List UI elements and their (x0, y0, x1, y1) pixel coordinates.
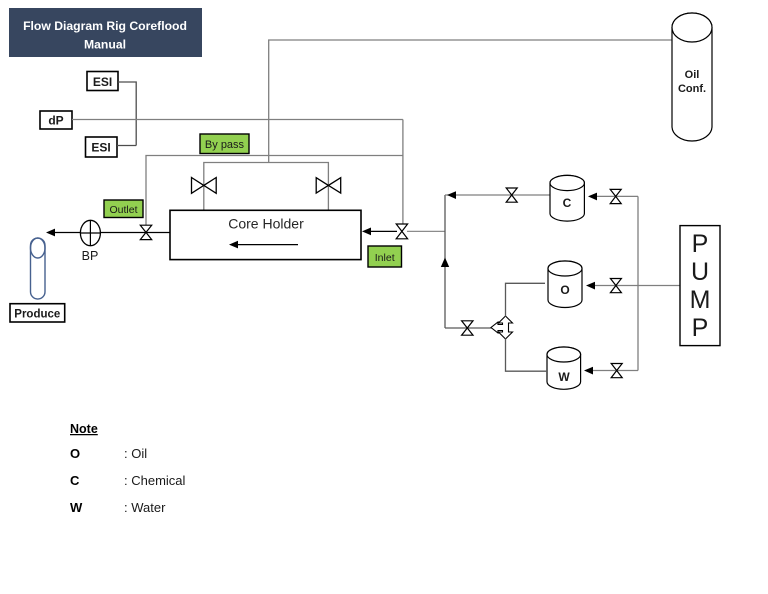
tank W (547, 347, 581, 389)
svg-text:Core Holder: Core Holder (228, 216, 304, 232)
svg-text:U: U (691, 258, 709, 286)
wire W feed from pump (592, 370, 638, 372)
arrow W feed (584, 367, 593, 375)
wire outlet line (53, 232, 170, 234)
svg-text:: Water: : Water (124, 500, 166, 515)
svg-text:Note: Note (70, 422, 98, 436)
svg-text:Outlet: Outlet (109, 204, 137, 216)
note row O (70, 446, 147, 461)
wire dP drop to inlet valve (402, 120, 404, 225)
svg-text:M: M (690, 286, 711, 314)
wire manifold up branch to O (506, 283, 546, 316)
wire ESI2 to junction (117, 145, 136, 147)
svg-text:ESI: ESI (93, 75, 112, 89)
svg-text:Produce: Produce (14, 308, 60, 320)
svg-text:P: P (692, 230, 709, 258)
wire riser junction vertical (444, 195, 446, 328)
box Produce (10, 304, 65, 322)
valve V4 (462, 321, 473, 335)
wire inlet line (370, 230, 397, 232)
label Outlet (104, 200, 143, 218)
svg-text:P: P (692, 314, 709, 342)
arrow outlet (46, 229, 55, 237)
manifold 3-way arrow (491, 316, 513, 339)
svg-text:W: W (558, 370, 570, 384)
arrow inside core holder (229, 241, 298, 249)
svg-text:Manual: Manual (84, 38, 126, 52)
svg-text:Inlet: Inlet (375, 252, 395, 264)
box ESI2 (86, 137, 118, 157)
box dP (40, 111, 72, 129)
svg-text:Oil: Oil (685, 69, 700, 81)
arrow O feed (586, 282, 595, 290)
valve V1 outlet (140, 225, 151, 239)
svg-text:O: O (70, 446, 80, 461)
valve B2 bypass right (316, 178, 341, 193)
valve V8 (611, 364, 622, 378)
wire pump supply vertical (637, 196, 639, 370)
svg-text:dP: dP (48, 114, 63, 128)
svg-text:Flow Diagram Rig Coreflood: Flow Diagram Rig Coreflood (23, 19, 187, 33)
arrow C feed (588, 193, 597, 201)
svg-text:ESI: ESI (91, 141, 110, 155)
valve V6 (610, 189, 621, 203)
wire bypass outer (146, 156, 403, 226)
wire O feed from pump (594, 285, 680, 287)
valve B1 bypass left (192, 178, 217, 194)
note row C (70, 473, 186, 488)
note row W (70, 500, 166, 515)
wire oil-conf feed (269, 40, 673, 163)
title box (9, 8, 202, 57)
svg-text:: Oil: : Oil (124, 446, 147, 461)
wire manifold line (445, 327, 492, 329)
svg-text:By pass: By pass (205, 139, 245, 151)
label By pass (200, 134, 249, 154)
core holder U2 (170, 210, 361, 259)
arrow C drain (447, 191, 456, 199)
svg-text:O: O (560, 283, 569, 297)
arrow inlet (362, 228, 371, 236)
svg-text:BP: BP (82, 249, 99, 263)
label Inlet (368, 246, 402, 267)
meter BP (80, 220, 100, 263)
wire dP line (72, 119, 403, 121)
svg-text:W: W (70, 500, 83, 515)
valve V2 inlet (396, 224, 407, 239)
valve V7 (610, 279, 621, 293)
tank C (550, 175, 584, 221)
svg-text:C: C (70, 473, 80, 488)
svg-text:Conf.: Conf. (678, 83, 706, 95)
wire C feed from pump (596, 195, 638, 197)
box PUMP U3 (680, 226, 720, 346)
tank Oil Conf. (672, 13, 712, 141)
tank O (548, 261, 582, 308)
tube produce (31, 238, 46, 299)
wire ESI1 to junction (118, 82, 136, 146)
wire C drain line (445, 194, 550, 196)
wire manifold down branch to W (506, 339, 548, 372)
wire bypass inner (204, 163, 329, 211)
valve V3 (506, 188, 517, 202)
arrow up on riser (441, 258, 449, 268)
box ESI1 (87, 72, 118, 91)
svg-text:: Chemical: : Chemical (124, 473, 186, 488)
svg-text:C: C (563, 196, 572, 210)
